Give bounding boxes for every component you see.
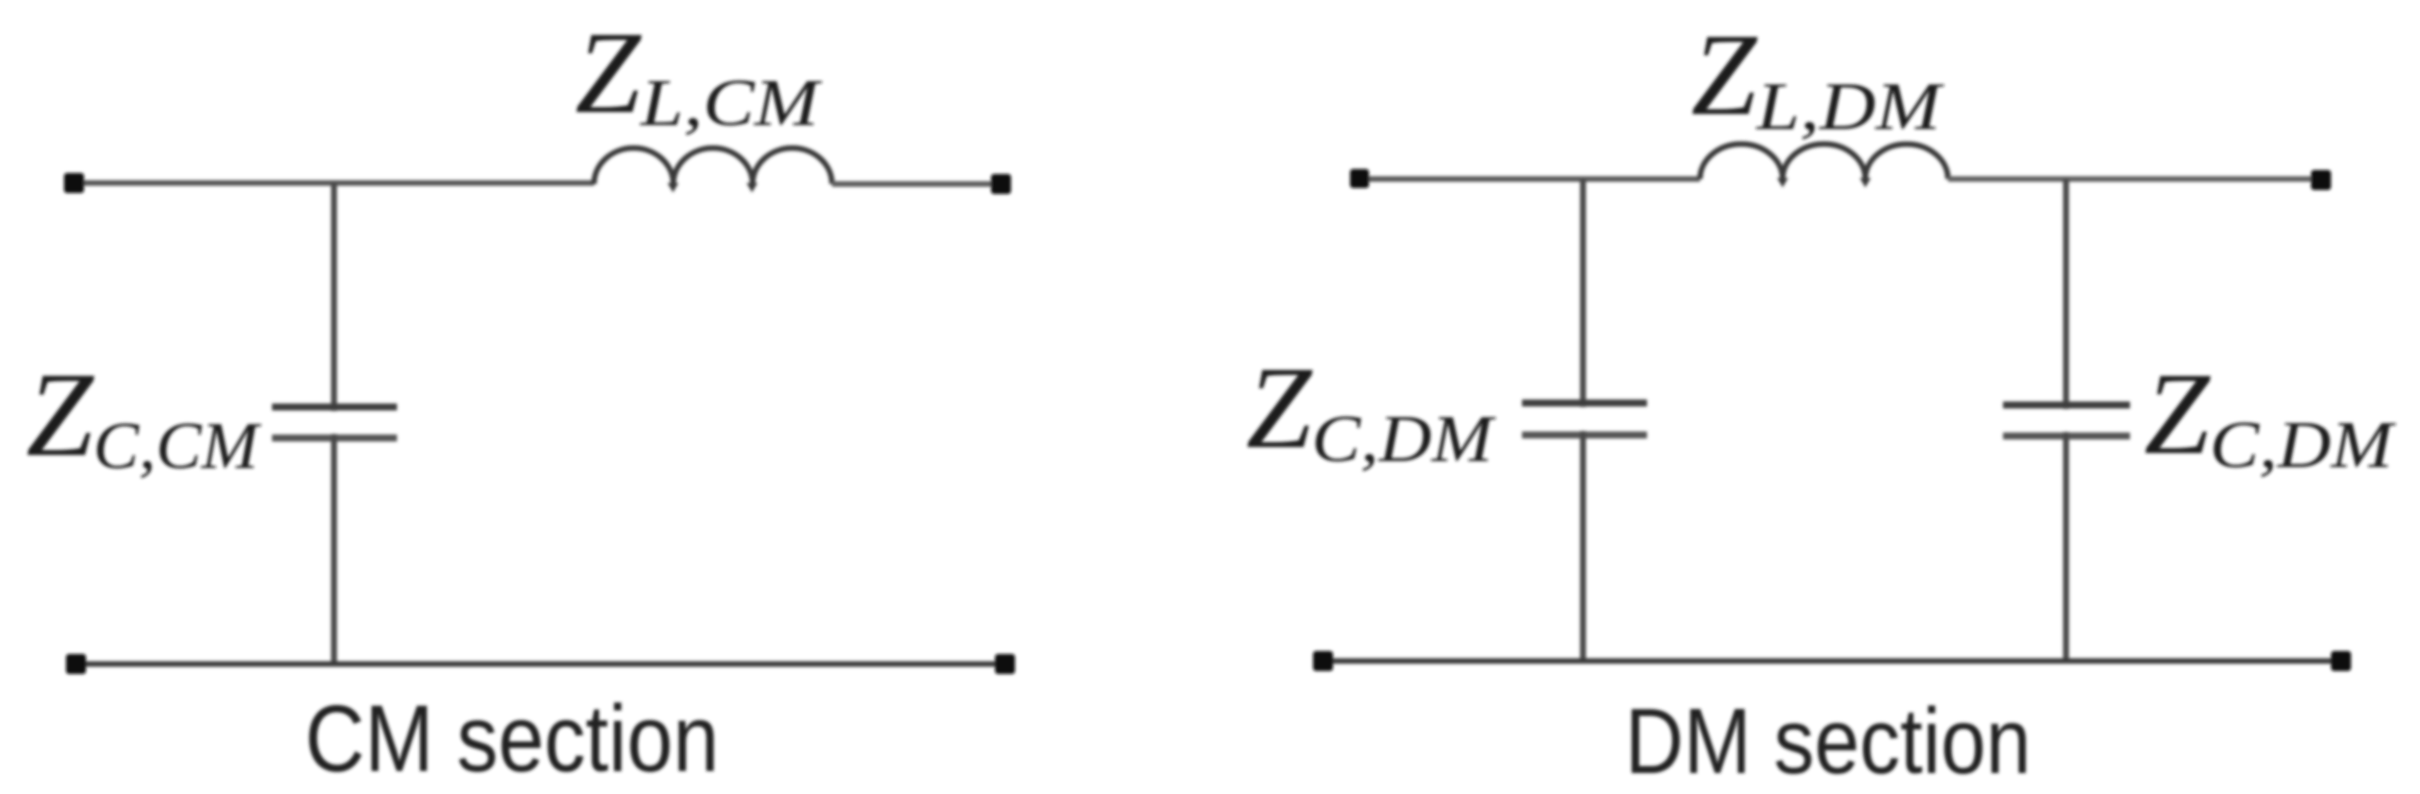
inductor Z_L,CM: [594, 148, 832, 184]
wire vertical branch DM right (lower): [2063, 432, 2069, 661]
wire vertical branch CM (upper): [331, 183, 337, 411]
terminal bottom-right CM: [995, 654, 1015, 674]
wire vertical branch DM right (upper): [2063, 179, 2069, 409]
capacitor Z_C,DM right top plate: [2003, 402, 2130, 409]
svg-text:DM section: DM section: [1625, 689, 2031, 793]
capacitor Z_C,CM bottom plate: [272, 435, 397, 442]
capacitor Z_C,DM right bottom plate: [2003, 433, 2130, 440]
terminal top-right DM: [2311, 170, 2331, 190]
wire top CM (left of inductor): [84, 180, 594, 186]
terminal bottom-left CM: [66, 654, 86, 674]
inductor Z_L,DM cusp 2: [1860, 178, 1871, 188]
inductor Z_L,DM: [1700, 144, 1948, 179]
inductor Z_L,CM cusp 1: [668, 183, 679, 193]
inductor Z_L,DM cusp 1: [1777, 178, 1788, 188]
inductor Z_L,CM cusp 2: [747, 183, 758, 193]
capacitor Z_C,DM left top plate: [1522, 400, 1647, 407]
wire vertical branch CM (lower): [331, 434, 337, 664]
wire top DM (right of inductor): [1948, 176, 2311, 182]
wire top CM (right of inductor): [832, 181, 991, 187]
wire vertical branch DM left (lower): [1580, 431, 1586, 661]
terminal bottom-left DM: [1313, 651, 1333, 671]
capacitor Z_C,DM left bottom plate: [1522, 432, 1647, 439]
wire bottom CM: [86, 661, 995, 667]
terminal top-left DM: [1350, 169, 1369, 188]
terminal top-left CM: [64, 173, 84, 193]
terminal top-right CM: [991, 174, 1011, 194]
svg-text:CM section: CM section: [305, 686, 719, 792]
wire top DM (left of inductor): [1369, 176, 1700, 182]
terminal bottom-right DM: [2331, 651, 2351, 671]
wire bottom DM: [1333, 658, 2331, 664]
capacitor Z_C,CM top plate: [272, 404, 397, 411]
wire vertical branch DM left (upper): [1580, 179, 1586, 407]
